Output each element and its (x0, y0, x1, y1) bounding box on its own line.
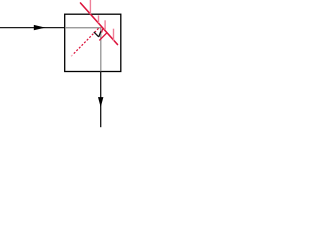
wire: output beam line (down) (100, 72, 102, 128)
red streak crossing below corner (99, 33, 106, 40)
mirror hatch tick 1 (89, 0, 91, 14)
dashed red beam path (faint tail) (71, 55, 72, 56)
output beam arrowhead (98, 97, 103, 107)
mirror hatch tick 4 (113, 29, 115, 41)
black arrow stroke B (99, 31, 101, 37)
mirror hatch tick 2 (98, 15, 100, 23)
wire: beam inside box (gray), bends down (65, 28, 101, 71)
mirror hatch tick 3 (104, 20, 106, 30)
black arrow stroke A (94, 32, 99, 37)
dashed red beam path (74, 28, 99, 54)
wire: input beam line (0, 27, 64, 29)
mirror: red diagonal (81, 3, 118, 45)
input beam arrowhead (34, 25, 46, 30)
red steep streak right of beam corner (102, 29, 103, 33)
box (beam splitter cube) (65, 14, 121, 71)
